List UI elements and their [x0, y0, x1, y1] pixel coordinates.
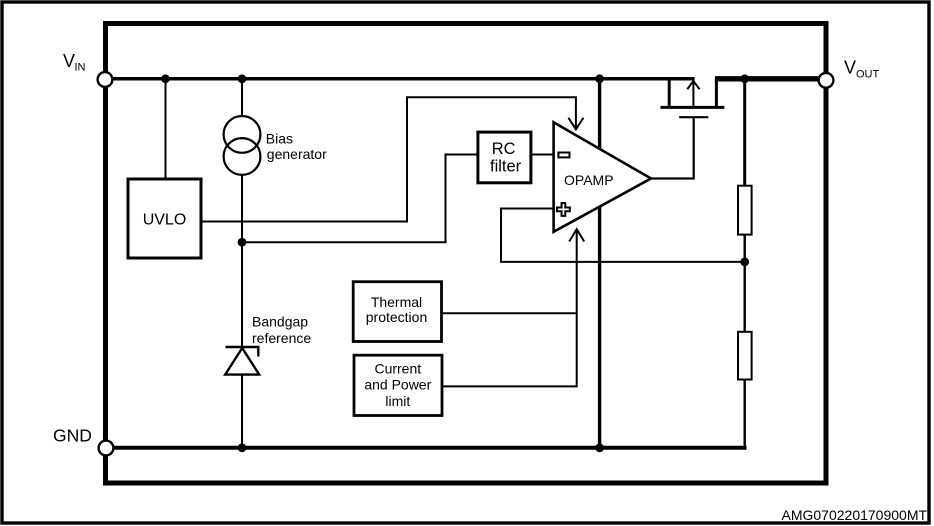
- svg-text:RC: RC: [492, 140, 516, 158]
- svg-text:Bandgap: Bandgap: [252, 314, 308, 330]
- svg-text:UVLO: UVLO: [143, 212, 187, 229]
- svg-text:GND: GND: [53, 426, 92, 446]
- svg-text:AMG070220170900MT: AMG070220170900MT: [782, 507, 928, 523]
- svg-text:filter: filter: [490, 158, 522, 176]
- svg-text:V: V: [63, 51, 75, 71]
- svg-text:limit: limit: [385, 393, 410, 409]
- svg-text:OUT: OUT: [856, 69, 880, 81]
- svg-text:protection: protection: [366, 309, 427, 325]
- svg-text:OPAMP: OPAMP: [564, 172, 614, 188]
- svg-text:generator: generator: [267, 146, 327, 162]
- svg-text:and Power: and Power: [364, 377, 431, 393]
- svg-text:Current: Current: [374, 361, 421, 377]
- svg-text:reference: reference: [252, 330, 311, 346]
- svg-text:IN: IN: [75, 62, 86, 74]
- svg-text:Thermal: Thermal: [371, 294, 422, 310]
- svg-text:Bias: Bias: [266, 130, 293, 146]
- svg-text:V: V: [844, 57, 856, 77]
